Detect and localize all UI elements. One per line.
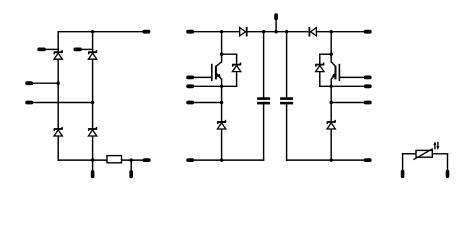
terminal X5 (AC input 2) [25,101,33,105]
wire C1 bottom lead [263,104,265,160]
wire D6 branch vertical [236,54,238,86]
junction node U1 emitter [220,85,223,88]
diode D8 (free-wheel diode of U2) [315,64,324,66]
wire right bottom rail (DC- right) [287,159,364,161]
terminal X3 (upper zener B tap) [73,48,82,52]
wire hanging stub at node (92.6,160) [92,160,94,170]
terminal X11 (U1 emitter) [186,84,194,88]
terminal X8 (left block bottom right) [143,158,151,162]
wire U2 auxiliary emitter lead [331,102,364,104]
junction node C1 top [262,30,265,33]
junction node A ac1 [57,82,60,85]
wire middle-left bottom rail (DC- left) [194,159,263,161]
junction node U2 collector rail [330,30,333,33]
wire RV1 right lead [432,153,447,155]
terminal X18 (U2 aux emitter) [364,101,372,105]
terminal X19 (DC- right) [364,158,372,162]
terminal X4 (AC input 1) [25,81,33,85]
wire left block top rail [58,31,142,33]
wire U2 collector riser [330,32,332,62]
terminal X16 (U2 gate) [364,76,372,80]
wire U1 collector riser [221,32,223,62]
junction node U1 aux emitter [220,101,223,104]
wire left block bottom rail [58,159,142,161]
wire D6 branch top [222,53,237,55]
terminal X2 (upper zener A tap) [37,48,46,52]
junction node U1 diode split [220,53,223,56]
diode D2 (zener, upper left bus B) [88,51,97,53]
diode D9 (zener below U1 emitter) [217,121,226,123]
capacitor C2 plate bottom [280,102,293,105]
varistor RV1 bidirectional arrows [434,144,436,149]
junction node DC+ terminal [274,30,277,33]
junction node U1 collector rail [220,30,223,33]
wire terminal X3 lead [82,48,93,50]
wire hanging stub at node (131.2,160) [130,160,132,170]
terminal X17 (U2 emitter) [364,84,372,88]
diode D5 (series diode, left of DC+ node) [240,28,246,36]
junction node U2 aux emitter [330,101,333,104]
capacitor C1 plate top [257,97,270,100]
diode D7 (series diode, right of DC+ node) [311,28,317,36]
terminal X20 (RV1 left) [401,170,405,178]
junction node B ac2 [91,101,94,104]
capacitor C2 plate top [280,97,293,100]
wire U1 emitter node horizontal [194,85,236,87]
wire C2 top lead [286,32,288,98]
junction node B bottom [91,158,94,161]
terminal X10 (U1 gate) [186,76,194,80]
wire U2 gate lead [339,76,363,78]
transistor U2 (IGBT, right arm) [338,64,340,81]
terminal X12 (U1 aux emitter) [186,101,194,105]
wire left bridge vertical bus A [57,32,59,160]
diode D10 (zener below U2 emitter) [327,121,336,123]
wire terminal X2 lead [46,48,58,50]
resistor R1 [107,156,122,163]
wire AC input 1 [33,82,58,84]
wire middle top rail (DC+ rail) [194,31,364,33]
wire D8 branch vertical [319,54,321,86]
wire C2 bottom lead [286,104,288,160]
wire U2 emitter vertical bus [330,79,332,160]
terminal X6 (left block bottom node B) [91,170,95,178]
terminal X1 (left block top, +) [142,30,150,34]
junction node after R1 [130,158,133,161]
wire RV1 left lead [403,153,416,155]
wire C1 top lead [263,32,265,98]
capacitor C1 plate bottom [257,102,270,105]
junction node U2 emitter [330,85,333,88]
terminal X21 (RV1 right) [446,170,450,178]
junction node DC- left [220,158,223,161]
wire U1 auxiliary emitter lead [194,102,221,104]
terminal X14 (DC+ center) [274,13,278,20]
wire left bridge vertical bus B [92,32,94,160]
junction node U2 diode split [330,53,333,56]
junction node DC- right [330,158,333,161]
wire U1 emitter vertical bus [221,79,223,160]
transistor U1 (IGBT, left arm) [211,64,213,81]
diode D6 (free-wheel diode of U1) [232,64,241,66]
junction node C2 top [285,30,288,33]
diode D1 (zener, upper left bus A) [54,51,63,53]
wire center terminal stub [275,20,277,32]
varistor RV1 body [416,150,432,157]
wire D8 branch top [320,53,331,55]
wire U1 gate lead [194,76,212,78]
junction node B top [91,30,94,33]
diode D3 (zener, lower left bus A) [54,128,63,130]
diode D4 (zener, lower left bus B) [88,128,97,130]
wire AC input 2 [33,102,92,104]
wire U2 emitter node horizontal [320,85,364,87]
terminal X9 (U1 collector / DC+ left) [186,30,194,34]
terminal X7 (left block bottom node after R1) [129,170,133,178]
terminal X15 (U2 collector / DC+ right) [364,30,372,34]
terminal X13 (DC- left) [186,158,194,162]
